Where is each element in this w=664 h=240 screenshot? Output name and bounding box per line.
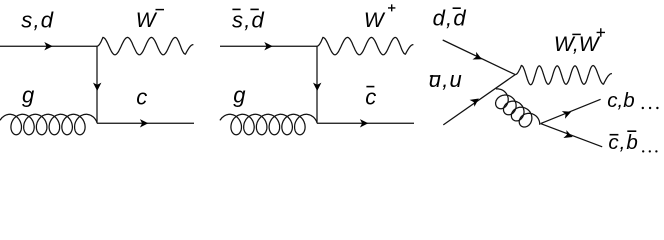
arrowhead on s,d line	[44, 42, 52, 50]
svg-text:s,d: s,d	[232, 7, 265, 32]
arrowhead on cbar line	[360, 119, 368, 127]
overbar on second d	[453, 7, 461, 9]
ellipsis dots after c,b	[642, 107, 644, 109]
wire: internal quark propagator (vertical)	[316, 46, 318, 123]
wire: internal quark propagator (vertical)	[96, 46, 98, 123]
gluon g curly line	[220, 114, 317, 134]
ellipsis dots after cbar,bbar	[642, 150, 644, 152]
overbar on s	[232, 8, 240, 10]
wire: outgoing c,b quark line	[541, 99, 601, 123]
svg-text:g: g	[233, 82, 246, 107]
svg-text:c: c	[365, 85, 376, 110]
overbar on d	[250, 8, 258, 10]
W+ boson wavy line	[317, 37, 413, 54]
arrowhead on c line	[140, 119, 148, 127]
superscript minus of first W	[572, 33, 581, 35]
wire: incoming d,dbar quark line	[443, 40, 516, 75]
svg-text:c,b: c,b	[607, 89, 634, 112]
svg-text:s,d: s,d	[21, 7, 54, 32]
wire: incoming s,d quark line	[0, 45, 97, 47]
wire: outgoing c quark line	[97, 122, 194, 124]
svg-text:g: g	[22, 82, 35, 107]
svg-text:W,W: W,W	[554, 33, 601, 56]
wire: outgoing cbar quark line	[317, 122, 414, 124]
arrowhead on ubar,u line	[470, 99, 479, 107]
superscript plus of second W	[597, 28, 605, 37]
superscript plus of W+	[388, 4, 395, 11]
overbar on c	[610, 134, 619, 136]
W- boson wavy line	[97, 37, 193, 54]
svg-text:c: c	[136, 85, 147, 110]
wire: incoming sbar,dbar antiquark line	[220, 45, 317, 47]
arrowhead on internal propagator (down)	[313, 83, 321, 91]
W-,W+ boson wavy line	[515, 65, 612, 84]
arrowhead on sbar,dbar line	[264, 42, 272, 50]
wire: outgoing cbar,bbar quark line	[541, 124, 603, 147]
gluon curly line (radiated)	[496, 89, 540, 127]
svg-text:W: W	[136, 9, 158, 32]
svg-text:d,d: d,d	[433, 6, 467, 31]
arrowhead on cbar,bbar line	[563, 130, 572, 138]
gluon g curly line	[0, 114, 97, 134]
wire: incoming ubar,u quark line	[443, 75, 515, 125]
arrowhead on c,b line	[562, 111, 571, 119]
superscript minus of W-	[156, 9, 165, 11]
arrowhead on d,dbar line	[473, 52, 482, 60]
svg-text:u,u: u,u	[429, 67, 463, 92]
overbar on first u	[430, 75, 439, 77]
arrowhead on internal propagator (down)	[93, 83, 101, 91]
svg-text:W: W	[364, 9, 386, 32]
overbar on c	[366, 86, 374, 88]
overbar on b	[627, 130, 636, 132]
